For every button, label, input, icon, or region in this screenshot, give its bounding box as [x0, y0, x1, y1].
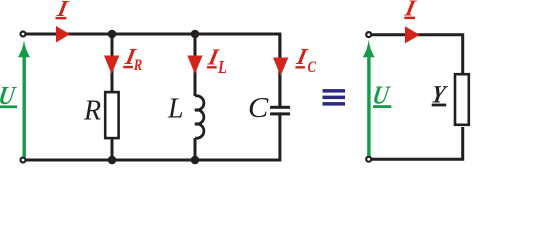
wire: bottom rail of parallel circuit with corner up to C branch — [26, 115, 280, 160]
svg-text:L: L — [217, 57, 227, 77]
svg-text:L: L — [167, 94, 184, 125]
label current I_R — [122, 44, 142, 74]
svg-text:R: R — [133, 57, 143, 74]
wire: L branch lower segment — [194, 138, 197, 160]
terminal: right circuit bottom-left open circle — [366, 157, 371, 162]
label voltage U left — [0, 81, 19, 110]
junction: top rail at L branch — [191, 30, 200, 39]
arrow: branch current I_L — [187, 56, 202, 75]
label admittance Y — [429, 81, 449, 108]
label R value — [83, 95, 101, 126]
arrow: current I on right circuit top wire — [405, 26, 420, 43]
junction: bottom rail at L branch — [191, 156, 200, 165]
label current I_L — [205, 45, 227, 78]
arrow: voltage U left (green, pointing up) — [18, 40, 30, 157]
label L value — [167, 94, 184, 125]
wire: L branch upper segment — [194, 34, 197, 96]
junction: bottom rail at R branch — [108, 156, 117, 165]
junction: top rail at R branch — [108, 30, 117, 39]
svg-text:C: C — [248, 93, 269, 124]
svg-text:U: U — [370, 81, 392, 110]
label C value — [248, 93, 269, 124]
arrow: current I on top-left wire — [56, 26, 70, 43]
terminal: bottom-left open circle — [21, 158, 26, 163]
wire: top rail of parallel circuit with corner down to C branch — [26, 34, 280, 106]
wire: R branch lower segment — [111, 139, 114, 160]
inductor L — [195, 96, 204, 138]
resistor R — [105, 92, 118, 138]
arrow: voltage U right (green, pointing up) — [363, 40, 375, 156]
wire: right circuit top rail with corner down — [372, 35, 463, 74]
terminal: right circuit top-left open circle — [366, 32, 371, 37]
terminal: top-left open circle — [21, 32, 26, 37]
label current I left — [54, 0, 70, 22]
equivalence symbol — [323, 89, 346, 106]
label voltage U right — [370, 81, 392, 110]
wire: C branch upper segment — [278, 34, 281, 106]
arrow: branch current I_R — [104, 56, 119, 75]
capacitor C top plate — [270, 106, 290, 109]
label current I_C — [294, 44, 317, 76]
svg-text:C: C — [308, 59, 317, 76]
label current I right — [402, 0, 418, 22]
svg-text:R: R — [83, 95, 101, 126]
capacitor C bottom plate — [270, 112, 290, 115]
wire: R branch upper segment — [111, 34, 114, 91]
admittance Y box — [455, 74, 469, 125]
arrow: branch current I_C — [273, 58, 288, 77]
wire: right circuit bottom rail with corner up — [372, 127, 463, 159]
